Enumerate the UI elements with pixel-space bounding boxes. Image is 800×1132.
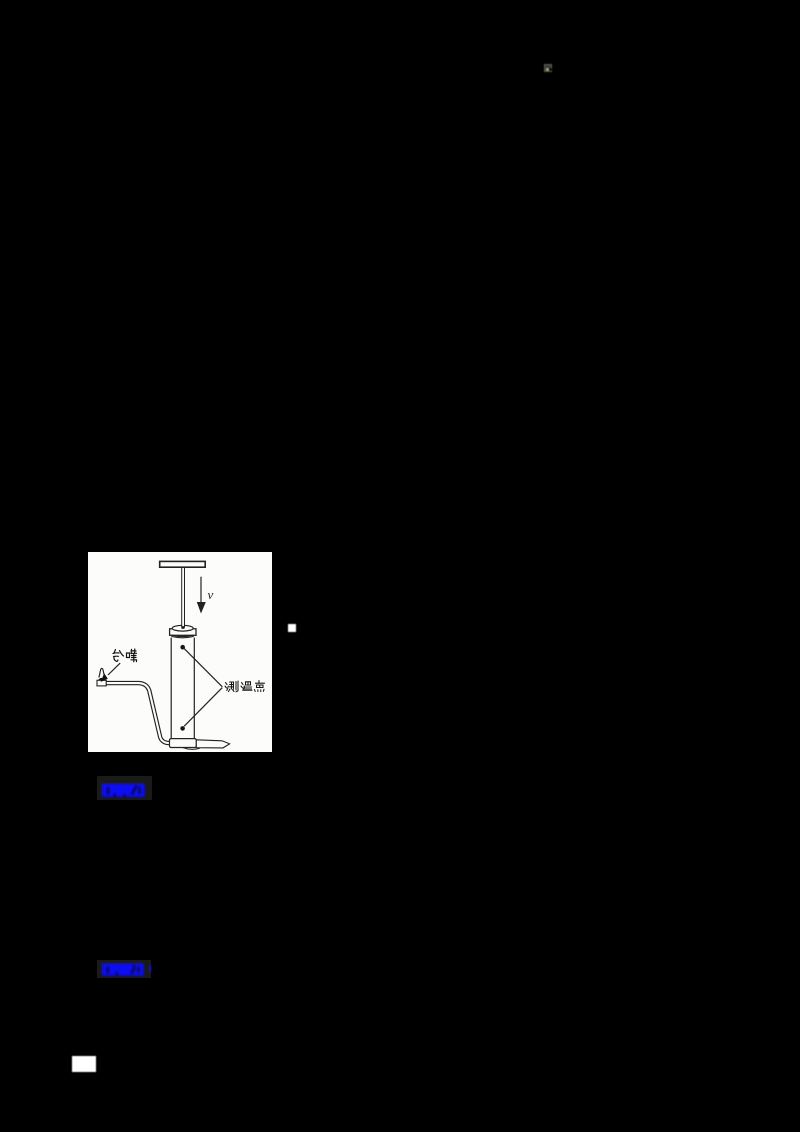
- measurement dot 1: [180, 645, 185, 650]
- piston rod: [182, 567, 185, 627]
- small white formula placeholder right of figure: [288, 624, 296, 632]
- blue label 1 (【解答】) with dark halo: [97, 776, 152, 800]
- pump illustration (white figure): [88, 552, 272, 752]
- small white formula placeholder bottom left: [72, 1056, 96, 1072]
- foot blade: [196, 740, 229, 748]
- piston cap: [170, 629, 196, 636]
- cylinder body: [171, 637, 194, 739]
- hose: [106, 683, 172, 743]
- svg-text:v: v: [208, 587, 214, 602]
- base bottom arc: [183, 748, 200, 750]
- pointer lines: [184, 648, 223, 687]
- label arrow to nozzle: [108, 663, 120, 675]
- qi zui label (气嘴): [113, 649, 137, 662]
- nozzle cone: [99, 668, 105, 677]
- base cap: [170, 739, 197, 748]
- cylinder mouth arc: [171, 636, 193, 637]
- tiny emoji/object icon top middle: [544, 64, 553, 73]
- T handle: [160, 561, 206, 567]
- measurement dot 2: [180, 726, 185, 731]
- blue label 2 (【点评】) with dark halo: [97, 960, 151, 978]
- ce wen dian label (测温点): [225, 681, 265, 692]
- nozzle base: [97, 680, 106, 686]
- velocity arrow: [200, 577, 202, 603]
